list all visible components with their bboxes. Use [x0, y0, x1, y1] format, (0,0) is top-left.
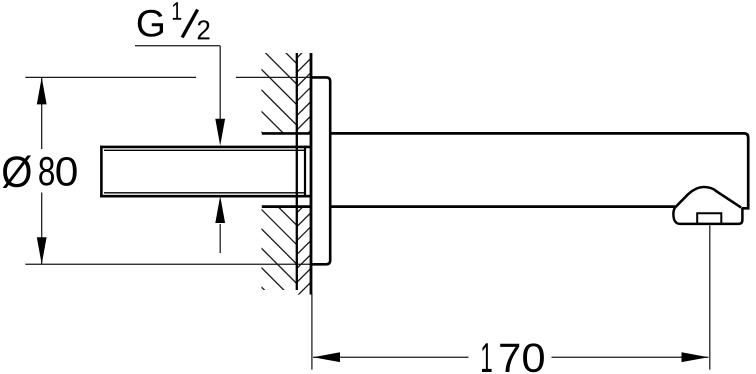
leader underline G1/2	[135, 45, 220, 47]
spout body outline	[330, 133, 748, 208]
170 right ext line	[709, 225, 711, 369]
label dia 80	[3, 155, 77, 188]
tile hatch upper band	[290, 39, 316, 151]
leader lower stem	[219, 224, 221, 253]
glyph 1 of 170	[482, 343, 492, 372]
glyph 7 of 170	[500, 344, 519, 372]
fraction slash	[182, 10, 197, 38]
hole top edge / spout silhouette in wall	[262, 132, 311, 135]
wall hatch lower left band	[240, 149, 340, 365]
tile hatch lower band	[290, 194, 316, 317]
leader vertical	[219, 46, 221, 121]
glyph 0 of 80	[56, 157, 76, 186]
label 170	[482, 343, 544, 372]
threaded tube inner bottom (thread root)	[104, 192, 305, 194]
threaded tube left end cap	[100, 146, 103, 198]
glyph 1 superscript	[173, 2, 181, 20]
label G 1/2	[138, 2, 210, 39]
spout bottom edge	[330, 205, 675, 208]
wall line 2 (finished wall surface)	[310, 53, 313, 295]
wall line 1 (rough wall surface)	[296, 53, 298, 290]
ext line top (o80) seg1	[25, 76, 196, 78]
threaded tube end line at wall	[304, 146, 306, 198]
dimension thin lines	[25, 46, 710, 370]
o80 dim line lower	[41, 193, 43, 265]
threaded tube outer top	[100, 146, 311, 149]
glyph 8	[39, 157, 54, 186]
glyph 0 of 170	[523, 343, 544, 372]
arrow down to tube top	[215, 119, 225, 146]
wall hatch upper left band	[240, 7, 340, 366]
170 left ext line	[311, 294, 313, 370]
170 dim line left seg	[313, 356, 469, 358]
o80 dim line upper	[41, 77, 43, 149]
170 arrow right	[682, 352, 709, 362]
170 arrow left	[313, 352, 340, 362]
o80 arrow up	[37, 77, 47, 104]
hole bottom edge / spout silhouette in wall	[262, 205, 311, 208]
threaded tube outer bottom	[100, 195, 311, 198]
glyph 2 subscript	[198, 20, 210, 39]
ext line top (o80) seg2	[236, 76, 311, 78]
mousseur outlet	[697, 213, 721, 223]
glyph G	[138, 10, 163, 37]
o80 arrow down	[37, 237, 47, 264]
glyph O-slash	[3, 155, 31, 188]
aerator pod	[673, 207, 742, 224]
170 dim line right seg	[552, 356, 709, 358]
aerator dome	[675, 187, 741, 208]
arrowheads	[37, 77, 709, 362]
flange (escutcheon)	[311, 77, 330, 264]
threaded tube inner top (thread root)	[104, 149, 305, 151]
ext line bottom (o80)	[25, 263, 311, 265]
arrow up to tube bottom	[215, 196, 225, 223]
